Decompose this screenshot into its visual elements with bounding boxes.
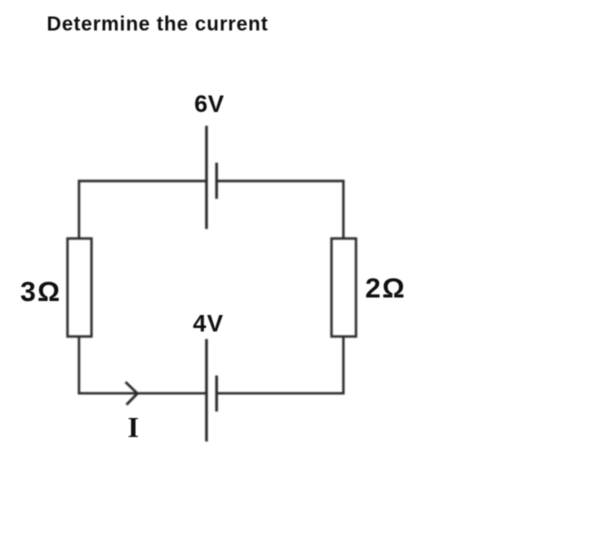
svg-text:I: I bbox=[128, 412, 139, 444]
svg-text:4V: 4V bbox=[193, 310, 224, 337]
svg-text:Determine the current: Determine the current bbox=[47, 13, 268, 35]
wire top-right segment bbox=[217, 181, 344, 239]
current arrow I bbox=[126, 382, 138, 405]
battery V1 6V short plate bbox=[215, 163, 218, 199]
svg-text:3Ω: 3Ω bbox=[20, 276, 61, 307]
wire bottom-left segment bbox=[79, 337, 207, 394]
battery V2 4V long plate bbox=[205, 339, 208, 442]
wire bottom-right segment bbox=[217, 337, 344, 394]
resistor R2 2ohm body bbox=[332, 239, 357, 337]
battery V2 4V short plate bbox=[215, 376, 218, 412]
battery V1 6V long plate bbox=[205, 126, 208, 229]
wire top-left segment bbox=[79, 181, 207, 239]
svg-text:6V: 6V bbox=[194, 91, 224, 118]
resistor R1 3ohm body bbox=[68, 239, 92, 337]
svg-text:2Ω: 2Ω bbox=[365, 273, 406, 304]
